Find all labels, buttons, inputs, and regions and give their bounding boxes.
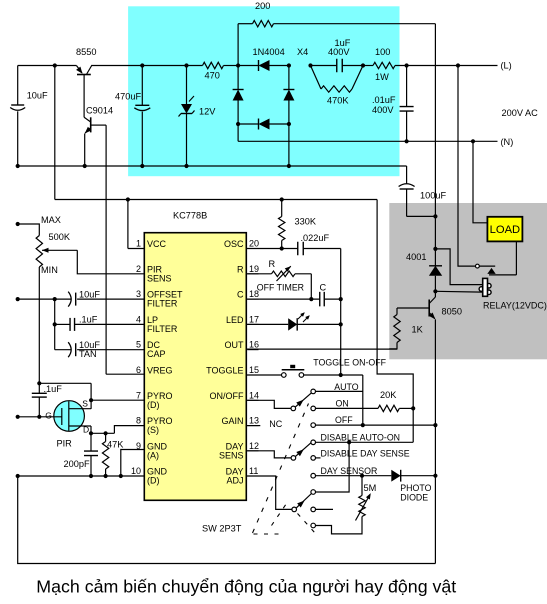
svg-text:3: 3 (136, 289, 141, 299)
resistor 200 (top) (253, 21, 274, 27)
svg-text:400V: 400V (372, 105, 394, 115)
svg-text:400V: 400V (328, 47, 350, 57)
diode D2 (bridge left vertical) (237, 66, 239, 90)
wire pin 11 DAY ADJ to SW1c pole (246, 476, 291, 509)
svg-text:ON: ON (336, 398, 349, 408)
svg-text:OSC: OSC (224, 239, 244, 249)
wire DISABLE AUTO-ON (316, 441, 414, 443)
photodiode D7 (391, 470, 400, 482)
svg-text:KC778B: KC778B (173, 211, 207, 221)
svg-text:14: 14 (249, 390, 259, 400)
pushbutton toggle switch (246, 374, 281, 376)
node bridge left top (236, 63, 240, 67)
svg-text:OFF TIMER: OFF TIMER (257, 282, 304, 292)
wire pot wiper to pin 2 (77, 250, 144, 273)
wire OSC RC vertical (340, 249, 342, 376)
wire L rail to right (395, 65, 498, 67)
capacitor C 10uF (pin 3) (68, 292, 71, 307)
svg-text:TAN: TAN (79, 349, 97, 359)
capacitor C .022uF (297, 242, 299, 256)
pin 12 underline tick (247, 450, 258, 452)
zener diode D 12V (184, 63, 188, 67)
wire pin 10 / gnd bottom rail (18, 475, 145, 477)
node L drop (456, 63, 460, 67)
node top rail / V54 junction (53, 63, 57, 67)
capacitor C .01uF 400V (406, 66, 408, 107)
svg-text:11: 11 (249, 466, 258, 476)
wire outer border left/bottom (18, 476, 436, 564)
wire DISABLE DAY SENSE stub (316, 457, 321, 459)
svg-text:1K: 1K (412, 325, 424, 335)
node N drop (471, 139, 475, 143)
diode D1 1N4004 (bridge top) (238, 65, 258, 67)
svg-text:200pF: 200pF (64, 459, 90, 469)
node Q2 emitter / gnd rail (83, 164, 87, 168)
svg-text:1W: 1W (375, 72, 389, 82)
wire SW1c top throw to DISABLE AUTO-ON node (316, 442, 350, 492)
wire pin 14 ON/OFF to switch pole (246, 400, 291, 408)
svg-text:20K: 20K (380, 390, 397, 400)
transistor Q3 8050 (428, 300, 430, 317)
transistor Q1 8550 (PNP pass transistor) (77, 74, 91, 76)
svg-text:8: 8 (136, 416, 141, 426)
capacitor C 470uF (140, 63, 144, 67)
wire pin 9 GND(A) (121, 450, 145, 477)
svg-text:200V AC: 200V AC (502, 108, 539, 118)
wire bridge right vertical to gnd rail (288, 124, 290, 166)
svg-text:C: C (320, 283, 327, 293)
pin 15 underline tick (247, 374, 258, 376)
svg-text:12V: 12V (199, 107, 216, 117)
node .01uF top (405, 63, 409, 67)
switch SW1b throws (311, 440, 316, 445)
svg-text:.022uF: .022uF (301, 233, 330, 243)
wire coil bottom (435, 290, 482, 293)
svg-text:S: S (82, 399, 88, 409)
node 100uF / right bus (433, 214, 437, 218)
svg-text:G: G (45, 410, 52, 420)
pin 19 underline tick (247, 273, 258, 275)
capacitor C 200pF (90, 433, 92, 451)
svg-text:C: C (237, 290, 244, 300)
wire SW1c middle stub (316, 508, 334, 510)
switch SW1c throws (311, 490, 316, 495)
capacitor C 1uF 400V (308, 63, 312, 67)
svg-text:5M: 5M (364, 483, 377, 493)
wire pin1 drop (127, 200, 129, 249)
svg-text:OFF: OFF (335, 415, 353, 425)
wire pin 6 VREG (106, 373, 144, 375)
wire LOAD right lead (515, 241, 517, 275)
svg-text:DISABLE DAY SENSE: DISABLE DAY SENSE (321, 448, 410, 458)
svg-text:15: 15 (249, 365, 259, 375)
wire 200-resistor top loop (237, 24, 239, 66)
diode D5 4001 (429, 265, 442, 267)
wire top loop to right bus (274, 23, 436, 25)
wire N rail horizontal (238, 140, 497, 142)
wire PIR S to pin 7 (39, 382, 91, 384)
svg-text:12: 12 (249, 441, 259, 451)
pin 16 underline tick (247, 349, 258, 351)
svg-text:R: R (237, 264, 244, 274)
svg-text:R: R (269, 259, 276, 269)
svg-text:(N): (N) (501, 137, 514, 147)
wire L drop into relay contact (458, 66, 495, 267)
capacitor C 10uF TAN (pin 5) (55, 349, 71, 351)
svg-text:47K: 47K (107, 440, 124, 450)
wire pin 1 VCC (128, 248, 144, 250)
svg-text:100: 100 (375, 47, 390, 57)
svg-text:D: D (83, 425, 89, 435)
svg-text:100uF: 100uF (420, 191, 446, 201)
wire toggle row (304, 374, 363, 376)
svg-text:470K: 470K (327, 96, 349, 106)
wire pin 3 row (18, 298, 71, 300)
svg-text:Mạch cảm biến chuyển động của: Mạch cảm biến chuyển động của người hay … (36, 577, 456, 597)
svg-text:16: 16 (249, 340, 259, 350)
svg-text:LOAD: LOAD (490, 224, 520, 236)
wire VCC drop right (377, 200, 413, 443)
svg-text:6: 6 (136, 365, 141, 375)
svg-text:GAIN: GAIN (221, 416, 243, 426)
svg-text:8550: 8550 (76, 47, 96, 57)
wire ON + resistor 20K (316, 407, 379, 409)
node relay coil feed (433, 247, 437, 251)
capacitor C (off timer) (319, 292, 321, 307)
node gnd rail left (16, 164, 20, 168)
svg-text:FILTER: FILTER (147, 324, 178, 334)
wire right bus vertical (relay rail) (434, 24, 436, 266)
svg-text:RELAY(12VDC): RELAY(12VDC) (483, 301, 547, 311)
node 8050 collector junction (433, 289, 437, 293)
svg-text:PHOTO: PHOTO (400, 483, 431, 493)
wire PIR drain to pin 8 (90, 426, 92, 433)
wire top +rail left segment (18, 65, 77, 67)
svg-text:MIN: MIN (41, 265, 58, 275)
LOAD box (487, 217, 522, 242)
diode D4 (bridge bottom) (236, 122, 240, 126)
wire AUTO (316, 390, 363, 392)
svg-text:ON/OFF: ON/OFF (210, 391, 244, 401)
mechanical gang dashed link (253, 404, 309, 534)
svg-text:20: 20 (249, 239, 259, 249)
svg-text:200: 200 (255, 1, 270, 11)
pin 13 underline tick (247, 425, 258, 427)
potentiometer 500K (MAX/MIN sensitivity) (16, 222, 20, 226)
svg-text:TOGGLE: TOGGLE (206, 366, 243, 376)
svg-text:CAP: CAP (147, 349, 166, 359)
svg-text:.01uF: .01uF (372, 95, 396, 105)
svg-text:X4: X4 (297, 47, 308, 57)
relay driver highlight region (gray) (389, 203, 547, 359)
svg-text:SENS: SENS (219, 450, 244, 460)
variable resistor R (off timer) (246, 273, 271, 275)
svg-text:500K: 500K (49, 232, 71, 242)
wire pin 20 OSC (246, 248, 297, 250)
svg-text:10uF: 10uF (27, 91, 48, 101)
switch SW1c pole (292, 507, 297, 512)
svg-text:VCC: VCC (147, 239, 167, 249)
pin 14 underline tick (247, 399, 258, 401)
wire toggle to AUTO vertical (362, 375, 364, 425)
svg-text:470: 470 (205, 71, 220, 81)
svg-text:330K: 330K (295, 217, 317, 227)
wire pin 16 OUT row (246, 348, 397, 350)
pin 18 underline tick (247, 298, 258, 300)
relay contact pivot (476, 264, 480, 268)
pin 20 underline tick (247, 248, 258, 250)
svg-text:7: 7 (136, 390, 141, 400)
wire VREG feed vertical (Q2 base line) (105, 125, 107, 374)
diode D3 (bridge right vertical) (288, 66, 290, 90)
resistor 100 1W (363, 65, 373, 67)
svg-text:DIODE: DIODE (400, 493, 428, 503)
svg-text:470uF: 470uF (115, 92, 141, 102)
svg-text:VREG: VREG (147, 366, 173, 376)
capacitor C .1uF (pin 4) (55, 323, 70, 325)
resistor 470K (parallel with 1uF) (311, 66, 322, 90)
svg-text:(A): (A) (147, 450, 159, 460)
svg-text:(D): (D) (147, 400, 160, 410)
svg-text:.1uF: .1uF (79, 315, 98, 325)
transistor Q2 C9014 (90, 117, 92, 132)
svg-text:PIR: PIR (57, 439, 73, 449)
svg-text:NC: NC (269, 419, 282, 429)
svg-text:SENS: SENS (147, 273, 172, 283)
op-amp U1 KC778B (PIR controller IC) (144, 233, 246, 501)
resistor R 47K (105, 433, 107, 441)
svg-text:17: 17 (249, 314, 259, 324)
capacitor C .1uF (PIR source) (37, 381, 41, 385)
svg-text:DISABLE AUTO-ON: DISABLE AUTO-ON (321, 432, 401, 442)
svg-text:.1uF: .1uF (44, 384, 63, 394)
svg-text:SW 2P3T: SW 2P3T (202, 524, 242, 534)
svg-text:OUT: OUT (225, 340, 245, 350)
wire pin 13 GAIN stub / NC (246, 425, 260, 427)
PIR sensor (54, 401, 85, 432)
wire OFF (316, 424, 436, 426)
relay contact arm (487, 268, 495, 274)
svg-text:4001: 4001 (406, 252, 426, 262)
relay coil (487, 283, 492, 288)
svg-text:C9014: C9014 (86, 106, 113, 116)
svg-text:1: 1 (136, 239, 141, 249)
wire N drop to LOAD (473, 141, 487, 223)
svg-text:4: 4 (136, 314, 141, 324)
wire pin 12 DAY SENS to switch pole (246, 451, 291, 458)
node bridge right top (287, 63, 291, 67)
wire pin 18 C row (246, 298, 319, 300)
resistor 5M (variable, light level) (361, 476, 363, 496)
svg-text:LED: LED (226, 315, 244, 325)
svg-text:(D): (D) (147, 476, 160, 486)
svg-text:AUTO: AUTO (334, 382, 358, 392)
svg-text:5: 5 (136, 340, 141, 350)
wire caps left bus (54, 299, 56, 350)
svg-text:(L): (L) (501, 61, 512, 71)
wire bridge left output down (237, 124, 239, 141)
svg-text:10uF: 10uF (79, 290, 100, 300)
wire PIR gate (18, 416, 62, 418)
wire R to pin 18 node (310, 274, 312, 299)
resistor 470 (203, 62, 224, 68)
wire VCC feed horizontal (55, 199, 377, 201)
pin 11 underline tick (247, 475, 258, 477)
svg-text:13: 13 (249, 416, 259, 426)
svg-text:MAX: MAX (41, 215, 61, 225)
wire relay coil feed (435, 249, 482, 285)
svg-text:FILTER: FILTER (147, 299, 178, 309)
wire 5M bottom to SW1c throw (316, 517, 362, 534)
wire second vertical V54 (top rail to VCC wire) (54, 66, 56, 200)
svg-text:TOGGLE ON-OFF: TOGGLE ON-OFF (313, 357, 386, 367)
svg-text:1N4004: 1N4004 (253, 47, 285, 57)
resistor R 330K (280, 197, 284, 201)
svg-text:8050: 8050 (442, 307, 462, 317)
wire gnd rail (middle horizontal) (18, 165, 407, 167)
pin 17 underline tick (247, 323, 258, 325)
wire top rail middle segment (91, 65, 202, 67)
svg-text:ADJ: ADJ (226, 476, 243, 486)
switch SW1a throws AUTO/ON/OFF (311, 389, 316, 394)
svg-text:19: 19 (249, 264, 259, 274)
svg-text:10: 10 (131, 466, 141, 476)
power supply highlight region (cyan) (128, 6, 399, 176)
wire top rail to bridge (224, 65, 239, 67)
svg-text:2: 2 (136, 264, 141, 274)
node VCC wire / pin1 drop (126, 197, 130, 201)
resistor R 1K (394, 315, 400, 343)
capacitor C 10uF (top left) (17, 66, 19, 105)
svg-text:(S): (S) (147, 425, 159, 435)
switch SW1b pole (291, 456, 296, 461)
LED D6 (246, 323, 288, 325)
capacitor C 100uF (406, 166, 408, 184)
switch SW1a pole (291, 406, 296, 411)
wire DAY SENSOR row (316, 475, 392, 477)
